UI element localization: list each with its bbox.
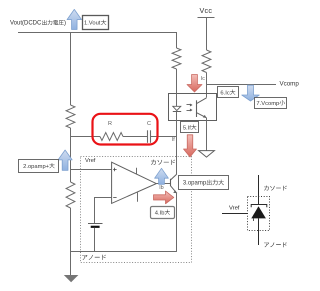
svg-text:): ) (64, 21, 66, 27)
svg-text:Vref: Vref (229, 205, 240, 211)
svg-text:Ib: Ib (159, 185, 163, 191)
svg-text:C: C (147, 121, 151, 127)
svg-text:2.opamp+: 2.opamp+ (23, 164, 50, 170)
svg-text:Ic: Ic (201, 76, 205, 82)
svg-text:Vref: Vref (85, 158, 96, 164)
svg-text:6.Ic: 6.Ic (220, 90, 229, 96)
svg-text:3.opamp: 3.opamp (183, 181, 207, 187)
svg-text:Vcomp: Vcomp (280, 81, 300, 88)
svg-text:Vcc: Vcc (200, 6, 213, 15)
svg-text:Vout(DCDC: Vout(DCDC (10, 21, 42, 27)
svg-text:5.If: 5.If (183, 125, 191, 131)
svg-text:7.Vcomp: 7.Vcomp (256, 101, 279, 107)
svg-text:4.Ib: 4.Ib (155, 210, 165, 216)
svg-text:R: R (108, 121, 112, 127)
svg-text:1.Vout: 1.Vout (84, 21, 101, 27)
